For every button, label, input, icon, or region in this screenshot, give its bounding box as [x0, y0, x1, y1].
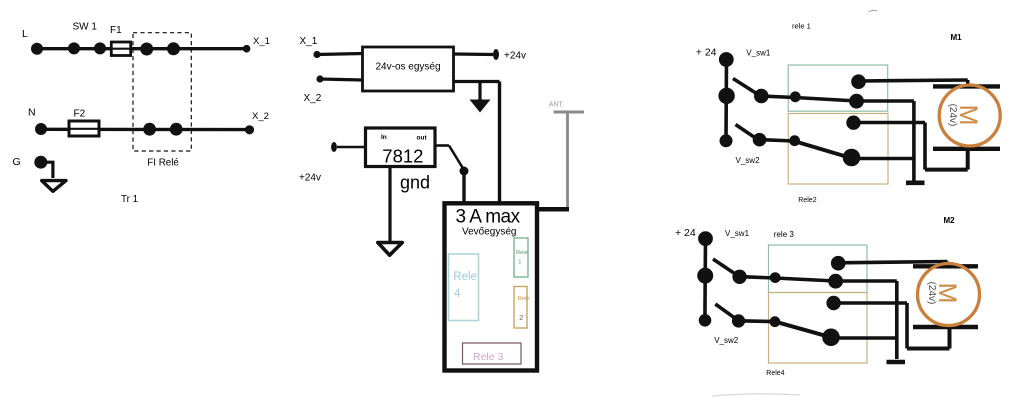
svg-text:Rele 3: Rele 3	[473, 351, 504, 363]
svg-text:+ 24: + 24	[675, 227, 696, 239]
svg-text:+24v: +24v	[504, 51, 526, 62]
svg-text:4: 4	[454, 288, 461, 300]
svg-text:1: 1	[518, 259, 521, 265]
svg-text:gnd: gnd	[400, 173, 430, 193]
svg-text:out: out	[417, 134, 428, 141]
svg-text:ANT.: ANT.	[549, 101, 564, 108]
svg-text:rele 3: rele 3	[774, 230, 795, 239]
svg-text:X_1: X_1	[253, 36, 270, 47]
svg-text:Rele: Rele	[516, 250, 528, 256]
svg-text:V_sw1: V_sw1	[725, 229, 750, 238]
svg-text:N: N	[28, 107, 36, 119]
svg-text:Tr 1: Tr 1	[121, 194, 138, 205]
svg-text:Rele4: Rele4	[766, 370, 784, 377]
svg-text:+ 24: + 24	[696, 46, 717, 58]
svg-text:L: L	[22, 28, 28, 40]
svg-text:SW 1: SW 1	[73, 22, 98, 33]
svg-text:F1: F1	[110, 25, 122, 36]
svg-text:3 A max: 3 A max	[456, 207, 521, 228]
svg-text:Vevőegység: Vevőegység	[462, 226, 517, 237]
svg-text:G: G	[13, 156, 21, 168]
svg-text:7812: 7812	[382, 146, 423, 167]
svg-text:V_sw2: V_sw2	[714, 336, 739, 345]
svg-text:(24v): (24v)	[947, 104, 958, 127]
svg-text:X_2: X_2	[304, 93, 322, 104]
svg-text:+24v: +24v	[299, 173, 321, 184]
svg-text:M1: M1	[951, 33, 963, 42]
svg-text:Rele: Rele	[453, 271, 477, 283]
svg-text:Rele2: Rele2	[798, 197, 816, 204]
svg-text:X_1: X_1	[300, 36, 318, 47]
svg-text:FI Relé: FI Relé	[147, 158, 179, 169]
svg-text:F2: F2	[74, 109, 86, 120]
svg-text:Rele: Rele	[518, 296, 530, 302]
svg-text:(24v): (24v)	[926, 282, 937, 305]
svg-text:rele 1: rele 1	[792, 22, 811, 31]
svg-text:V_sw1: V_sw1	[746, 48, 771, 57]
svg-text:24v-os egység: 24v-os egység	[376, 62, 441, 73]
svg-text:M2: M2	[944, 216, 956, 225]
svg-text:In: In	[381, 134, 387, 141]
svg-text:2: 2	[519, 315, 523, 322]
svg-text:V_sw2: V_sw2	[736, 156, 761, 165]
svg-text:X_2: X_2	[252, 111, 269, 122]
